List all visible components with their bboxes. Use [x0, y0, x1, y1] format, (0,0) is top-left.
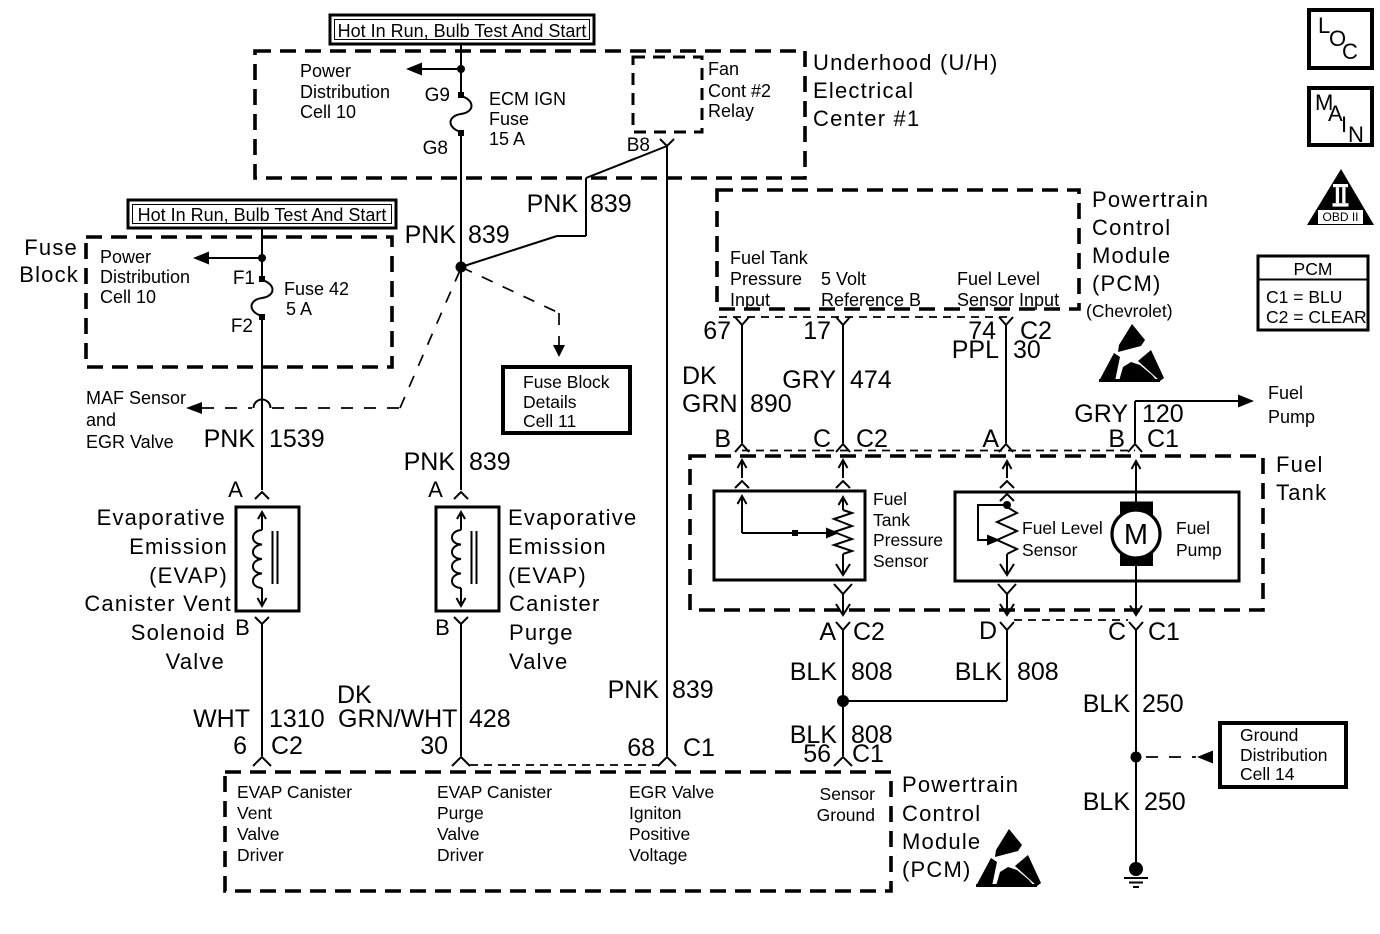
- svg-text:N: N: [1348, 122, 1365, 147]
- junction splice PNK 839: [456, 262, 467, 273]
- svg-text:GRN: GRN: [682, 390, 738, 418]
- label Fuse 42 5 A: [284, 279, 349, 319]
- svg-text:(Chevrolet): (Chevrolet): [1086, 301, 1173, 321]
- svg-text:C2: C2: [856, 425, 888, 453]
- svg-text:Fuel Level: Fuel Level: [1022, 518, 1103, 538]
- svg-text:808: 808: [1017, 658, 1059, 686]
- svg-text:839: 839: [672, 676, 714, 704]
- svg-text:428: 428: [469, 705, 511, 733]
- label Fuse Block: [19, 235, 79, 287]
- connector V 74: [999, 317, 1013, 325]
- svg-text:Module: Module: [902, 829, 981, 854]
- label Underhood Electrical Center: [813, 50, 999, 131]
- svg-text:Emission: Emission: [129, 534, 228, 559]
- svg-text:Valve: Valve: [509, 649, 568, 674]
- svg-text:839: 839: [468, 221, 510, 249]
- terminal 68 C1: [627, 734, 715, 762]
- svg-text:Fuse Block: Fuse Block: [523, 372, 610, 392]
- svg-text:B: B: [235, 615, 251, 640]
- title box Hot In Run Bulb Test And Start (top): [330, 15, 594, 44]
- svg-text:Positive: Positive: [629, 824, 690, 844]
- fuel pump motor M: [1112, 502, 1160, 567]
- connector V A C2: [836, 622, 850, 630]
- pressure sensor output lead: [834, 584, 852, 615]
- svg-text:Relay: Relay: [708, 101, 754, 121]
- connector V below purge valve: [454, 617, 468, 624]
- svg-text:839: 839: [590, 190, 632, 218]
- label PNK 839 lower: [404, 448, 511, 476]
- Fan Cont #2 Relay dashed box: [633, 57, 702, 132]
- svg-text:Sensor: Sensor: [873, 551, 929, 571]
- wire WHT 1310: [261, 624, 263, 756]
- wire GRY 474: [842, 325, 844, 443]
- svg-text:Cell 10: Cell 10: [100, 287, 156, 307]
- label PNK 839 upper: [405, 221, 510, 249]
- svg-text:1310: 1310: [269, 705, 325, 733]
- svg-text:Fuse: Fuse: [489, 109, 529, 129]
- terminal C C1 (below tank): [1108, 618, 1180, 646]
- connector V below vent valve: [255, 617, 269, 624]
- pressure sensor wiper arm: [738, 496, 840, 539]
- label GRY 474: [782, 366, 892, 394]
- terminal 6 C2: [233, 732, 303, 760]
- svg-text:Sensor Input: Sensor Input: [957, 290, 1059, 310]
- svg-text:Underhood (U/H): Underhood (U/H): [813, 50, 999, 75]
- label PNK 1539: [204, 425, 325, 453]
- label BLK 250 lower: [1083, 788, 1186, 816]
- svg-text:474: 474: [850, 366, 892, 394]
- dashed link to ground distribution: [1146, 751, 1213, 764]
- svg-text:6: 6: [233, 732, 247, 760]
- label EGR valve igniton positive voltage: [629, 782, 714, 865]
- svg-text:(PCM): (PCM): [1092, 271, 1162, 296]
- connector chevron A vent valve: [255, 492, 269, 499]
- label Fuel Tank Pressure Sensor: [873, 489, 943, 571]
- svg-text:17: 17: [803, 317, 831, 345]
- label Power Distribution Cell 10 (fuse block): [100, 247, 190, 307]
- connector chevron into PCM (68 C1): [658, 757, 676, 766]
- svg-text:Power: Power: [300, 61, 351, 81]
- svg-text:Fuse: Fuse: [24, 235, 78, 260]
- svg-text:Cell 14: Cell 14: [1240, 764, 1295, 784]
- svg-text:(EVAP): (EVAP): [508, 563, 587, 588]
- svg-text:(EVAP): (EVAP): [149, 563, 228, 588]
- connector V D: [1000, 622, 1014, 630]
- svg-text:Fuel: Fuel: [873, 489, 907, 509]
- svg-text:EGR Valve: EGR Valve: [629, 782, 714, 802]
- svg-text:Ground: Ground: [1240, 725, 1298, 745]
- svg-text:C2: C2: [271, 732, 303, 760]
- label Powertrain Control Module PCM (bottom): [902, 772, 1019, 882]
- svg-text:Valve: Valve: [437, 824, 479, 844]
- svg-text:Block: Block: [19, 262, 79, 287]
- svg-text:WHT: WHT: [193, 705, 250, 733]
- svg-text:Cell 11: Cell 11: [523, 411, 576, 431]
- label sensor ground: [817, 784, 876, 825]
- svg-text:Distribution: Distribution: [1240, 745, 1328, 765]
- wire PNK 839 (ECM IGN feed): [460, 133, 462, 490]
- svg-text:5 A: 5 A: [286, 299, 312, 319]
- wire hot to fuse 42: [261, 228, 263, 279]
- label GRY 120: [1074, 400, 1183, 428]
- label evaporative emission canister vent solenoid valve: [84, 505, 232, 674]
- svg-text:1539: 1539: [269, 425, 325, 453]
- svg-text:C: C: [1108, 618, 1126, 646]
- connector V at B8: [660, 139, 674, 146]
- terminal 74 C2: [968, 317, 1052, 345]
- svg-text:Fuel: Fuel: [1268, 383, 1303, 403]
- svg-text:5 Volt: 5 Volt: [821, 269, 866, 289]
- svg-text:Sensor: Sensor: [1022, 540, 1078, 560]
- svg-text:BLK: BLK: [1083, 690, 1131, 718]
- svg-text:30: 30: [1013, 336, 1041, 364]
- pump ground lead: [1130, 566, 1142, 615]
- wire PPL 30: [1005, 325, 1007, 443]
- svg-text:Canister Vent: Canister Vent: [84, 591, 232, 616]
- svg-text:Cont #2: Cont #2: [708, 81, 771, 101]
- svg-text:Pressure: Pressure: [873, 530, 943, 550]
- svg-text:DK: DK: [682, 362, 717, 390]
- junction (arrow/wire fuse block): [258, 254, 266, 262]
- svg-text:Distribution: Distribution: [300, 82, 390, 102]
- svg-text:B: B: [435, 615, 451, 640]
- svg-text:PNK: PNK: [608, 676, 660, 704]
- svg-text:890: 890: [750, 390, 792, 418]
- ground distribution cell 14 box: [1220, 723, 1346, 787]
- svg-text:Power: Power: [100, 247, 151, 267]
- label DK GRN 890: [682, 362, 792, 418]
- svg-text:EGR Valve: EGR Valve: [86, 432, 174, 452]
- arrow to power distribution (fuse block): [193, 252, 262, 265]
- svg-text:EVAP Canister: EVAP Canister: [237, 782, 352, 802]
- vent valve coil: [253, 512, 267, 606]
- svg-text:Solenoid: Solenoid: [131, 620, 226, 645]
- pump feed lead: [1132, 461, 1141, 502]
- svg-text:B: B: [714, 425, 731, 453]
- svg-text:Driver: Driver: [237, 845, 284, 865]
- connector chevron B C1: [1128, 444, 1142, 452]
- label BLK 250 upper: [1083, 690, 1184, 718]
- PCM connector table: [1258, 256, 1368, 330]
- svg-text:15 A: 15 A: [489, 129, 525, 149]
- label BLK 808 (A): [790, 658, 893, 686]
- svg-text:A: A: [819, 618, 836, 646]
- label EVAP canister purge valve driver: [437, 782, 552, 865]
- svg-text:C1 = BLU: C1 = BLU: [1266, 287, 1342, 307]
- connector chevron into PCM (30): [452, 757, 470, 766]
- svg-text:Fuel: Fuel: [1276, 452, 1324, 477]
- label Fuel Pump (tank): [1176, 518, 1222, 560]
- svg-text:Valve: Valve: [237, 824, 279, 844]
- label WHT 1310: [193, 705, 325, 733]
- svg-text:G8: G8: [423, 138, 448, 159]
- dashed wire to fuse block details: [461, 267, 565, 357]
- svg-text:OBD II: OBD II: [1322, 210, 1358, 224]
- svg-text:56: 56: [803, 740, 831, 768]
- connector chevron A purge valve: [454, 492, 468, 499]
- svg-text:BLK: BLK: [955, 658, 1003, 686]
- svg-text:808: 808: [851, 658, 893, 686]
- svg-text:Module: Module: [1092, 243, 1171, 268]
- svg-text:Hot In Run, Bulb Test And Star: Hot In Run, Bulb Test And Start: [338, 21, 587, 41]
- svg-text:F1: F1: [233, 268, 255, 289]
- svg-text:Purge: Purge: [437, 803, 484, 823]
- svg-text:Reference B: Reference B: [821, 290, 921, 310]
- fuel level sensor wiper: [978, 505, 1007, 546]
- label 5 Volt Reference B: [821, 269, 921, 310]
- svg-text:BLK: BLK: [790, 658, 838, 686]
- svg-text:250: 250: [1142, 690, 1184, 718]
- label Fan Cont #2 Relay: [708, 59, 771, 121]
- svg-text:Sensor: Sensor: [820, 784, 876, 804]
- svg-text:Fan: Fan: [708, 59, 739, 79]
- Fuse Block dashed box: [86, 237, 392, 367]
- wire BLK 250: [1135, 630, 1137, 863]
- svg-text:Control: Control: [1092, 215, 1171, 240]
- svg-text:Fuse 42: Fuse 42: [284, 279, 349, 299]
- terminal A C2 (below tank): [819, 618, 885, 646]
- svg-text:Electrical: Electrical: [813, 78, 914, 103]
- label ECM IGN Fuse 15 A: [489, 89, 566, 149]
- label Fuel Tank Pressure Input: [730, 248, 809, 310]
- svg-text:C2: C2: [853, 618, 885, 646]
- svg-text:Pressure: Pressure: [730, 269, 802, 289]
- dashed connector row below PCM: [719, 316, 1012, 318]
- svg-text:Fuel: Fuel: [1176, 518, 1210, 538]
- purge valve core lines: [472, 531, 477, 584]
- tank lead B arrow: [735, 460, 749, 488]
- PCM top dashed box: [717, 190, 1079, 309]
- svg-text:Powertrain: Powertrain: [1092, 187, 1209, 212]
- svg-text:PCM: PCM: [1294, 259, 1333, 279]
- svg-text:68: 68: [627, 734, 655, 762]
- wire diagonal from B8: [461, 146, 667, 267]
- wire PNK 839 (EGR ignition): [666, 146, 668, 756]
- svg-text:B8: B8: [627, 135, 650, 156]
- tank lead C arrow: [836, 460, 850, 488]
- svg-text:M: M: [1124, 519, 1148, 551]
- svg-text:Valve: Valve: [166, 649, 225, 674]
- svg-text:PNK: PNK: [204, 425, 256, 453]
- svg-text:120: 120: [1142, 400, 1184, 428]
- svg-text:Ground: Ground: [817, 805, 875, 825]
- svg-text:C1: C1: [683, 734, 715, 762]
- svg-text:C1: C1: [1147, 425, 1179, 453]
- wire BLK 808 (A C2): [842, 630, 844, 756]
- fuel level sensor resistor: [997, 494, 1017, 575]
- svg-text:Center #1: Center #1: [813, 106, 920, 131]
- label PPL 30: [952, 336, 1041, 364]
- svg-text:PNK: PNK: [405, 221, 457, 249]
- svg-text:Vent: Vent: [237, 803, 272, 823]
- svg-text:Evaporative: Evaporative: [97, 505, 226, 530]
- label Ground Distribution Cell 14: [1240, 725, 1328, 784]
- vent valve core lines: [273, 531, 278, 584]
- label evaporative emission canister purge valve: [508, 505, 637, 674]
- junction splice ground distribution: [1131, 752, 1142, 763]
- svg-text:Cell 10: Cell 10: [300, 102, 356, 122]
- svg-text:C1: C1: [852, 740, 884, 768]
- fuel level sensor and pump box: [955, 492, 1239, 581]
- svg-text:Driver: Driver: [437, 845, 484, 865]
- terminal C C2 (fuel tank): [813, 425, 888, 453]
- svg-text:B: B: [1108, 425, 1125, 453]
- svg-text:30: 30: [420, 732, 448, 760]
- label Fuel Tank: [1276, 452, 1327, 505]
- svg-text:Fuel Tank: Fuel Tank: [730, 248, 809, 268]
- svg-text:C2 = CLEAR: C2 = CLEAR: [1266, 307, 1367, 327]
- svg-text:Hot In Run, Bulb Test And Star: Hot In Run, Bulb Test And Start: [138, 205, 387, 225]
- wire ignition to fuse: [460, 44, 462, 95]
- terminal B C1 (fuel tank pump): [1108, 425, 1179, 453]
- ESD symbol top: [1099, 324, 1164, 381]
- svg-text:MAF Sensor: MAF Sensor: [86, 388, 186, 408]
- svg-text:GRY: GRY: [782, 366, 836, 394]
- svg-text:Pump: Pump: [1268, 407, 1315, 427]
- label EVAP canister vent valve driver: [237, 782, 352, 865]
- svg-text:Purge: Purge: [509, 620, 574, 645]
- connector chevron B fuel tank: [735, 444, 749, 452]
- connector chevron A fuel tank: [999, 444, 1013, 452]
- svg-text:PNK: PNK: [527, 190, 579, 218]
- wire DK GRN/WHT 428: [460, 624, 462, 756]
- wire BLK 808 (D): [843, 630, 1007, 701]
- connector V 67: [735, 317, 749, 325]
- svg-text:Tank: Tank: [1276, 480, 1327, 505]
- svg-text:A: A: [228, 477, 244, 502]
- label BLK 808 (D): [955, 658, 1059, 686]
- junction splice BLK 808: [837, 695, 849, 707]
- level sensor ground lead: [998, 584, 1016, 615]
- svg-text:GRY: GRY: [1074, 400, 1128, 428]
- connector chevron C fuel tank: [836, 444, 850, 452]
- label Power Distribution Cell 10 (underhood): [300, 61, 390, 122]
- svg-text:67: 67: [703, 317, 731, 345]
- svg-text:839: 839: [469, 448, 511, 476]
- ESD symbol bottom: [976, 829, 1041, 886]
- svg-text:F2: F2: [231, 316, 253, 337]
- dashed connector line 30-68: [470, 764, 658, 766]
- EVAP canister purge valve box: [436, 507, 499, 611]
- svg-text:Input: Input: [730, 290, 770, 310]
- PCM bottom dashed box: [225, 772, 891, 891]
- svg-text:Details: Details: [523, 392, 577, 412]
- svg-text:A: A: [428, 477, 444, 502]
- svg-text:C: C: [1342, 39, 1359, 64]
- connector chevron into PCM (56 C1): [834, 757, 852, 766]
- purge valve coil: [452, 512, 466, 606]
- wire PNK 1539: [261, 317, 263, 490]
- label MAF Sensor and EGR Valve: [86, 388, 186, 452]
- ground symbol: [1124, 862, 1148, 887]
- svg-text:Voltage: Voltage: [629, 845, 687, 865]
- Underhood Electrical Center dashed box: [255, 51, 805, 178]
- connector V C C1: [1129, 622, 1143, 630]
- svg-text:ECM IGN: ECM IGN: [489, 89, 566, 109]
- svg-text:Tank: Tank: [873, 510, 910, 530]
- svg-text:Evaporative: Evaporative: [508, 505, 637, 530]
- svg-text:Igniton: Igniton: [629, 803, 682, 823]
- connector V 17: [836, 317, 850, 325]
- OBD II symbol: [1307, 169, 1374, 225]
- svg-text:Fuel Level: Fuel Level: [957, 269, 1040, 289]
- label PNK 839 (EGR wire): [608, 676, 714, 704]
- svg-text:PNK: PNK: [404, 448, 456, 476]
- label BLK 808 lower: [790, 721, 893, 749]
- fuse block details cell 11 box: [503, 367, 630, 433]
- svg-text:PPL: PPL: [952, 336, 999, 364]
- svg-text:Canister: Canister: [509, 591, 601, 616]
- wire GRY 120 to fuel pump: [1135, 395, 1254, 444]
- svg-text:Emission: Emission: [508, 534, 607, 559]
- arrow to power distribution: [406, 63, 461, 76]
- svg-text:and: and: [86, 410, 116, 430]
- MAIN box: [1309, 88, 1372, 147]
- LOC box: [1309, 10, 1372, 68]
- svg-text:C: C: [813, 425, 831, 453]
- EVAP canister vent solenoid valve box: [236, 507, 299, 611]
- svg-text:Distribution: Distribution: [100, 267, 190, 287]
- title box Hot In Run Bulb Test And Start (fuse block): [128, 200, 396, 228]
- pressure sensor resistor: [834, 497, 852, 575]
- svg-text:250: 250: [1144, 788, 1186, 816]
- label Powertrain Control Module PCM Chevrolet: [1086, 187, 1209, 321]
- terminal 56 C1: [803, 740, 884, 768]
- label PNK 839 (B8 branch): [527, 190, 632, 218]
- junction (arrow/wire): [457, 65, 465, 73]
- svg-text:Control: Control: [902, 801, 981, 826]
- fuel tank pressure sensor box: [714, 491, 865, 580]
- label Fuel Level Sensor: [1022, 518, 1103, 560]
- svg-text:D: D: [979, 617, 997, 645]
- svg-text:G9: G9: [425, 85, 450, 106]
- label Fuel Level Sensor Input: [957, 269, 1059, 310]
- tank lead A arrow: [1000, 461, 1014, 488]
- dashed connector row fuel tank top: [742, 450, 1135, 452]
- svg-text:C1: C1: [1148, 618, 1180, 646]
- svg-text:Pump: Pump: [1176, 540, 1222, 560]
- fuse Fuse 42 5A: [252, 276, 273, 320]
- label Fuse Block Details Cell 11: [523, 372, 610, 431]
- svg-text:A: A: [982, 425, 999, 453]
- fuse ECM IGN 15A: [451, 92, 472, 136]
- connector chevron into PCM (6 C2): [253, 757, 271, 766]
- svg-text:(PCM): (PCM): [902, 857, 972, 882]
- wire DK GRN 890: [741, 325, 743, 443]
- dashed connector row D-C: [1014, 619, 1128, 621]
- svg-text:GRN/WHT: GRN/WHT: [338, 705, 457, 733]
- dashed wire to MAF sensor with hop: [186, 268, 461, 414]
- svg-text:Powertrain: Powertrain: [902, 772, 1019, 797]
- svg-text:BLK: BLK: [1083, 788, 1131, 816]
- Fuel Tank dashed box: [690, 456, 1263, 610]
- label Fuel Pump (arrow): [1268, 383, 1315, 427]
- label DK GRN/WHT 428: [337, 681, 511, 733]
- svg-text:EVAP Canister: EVAP Canister: [437, 782, 552, 802]
